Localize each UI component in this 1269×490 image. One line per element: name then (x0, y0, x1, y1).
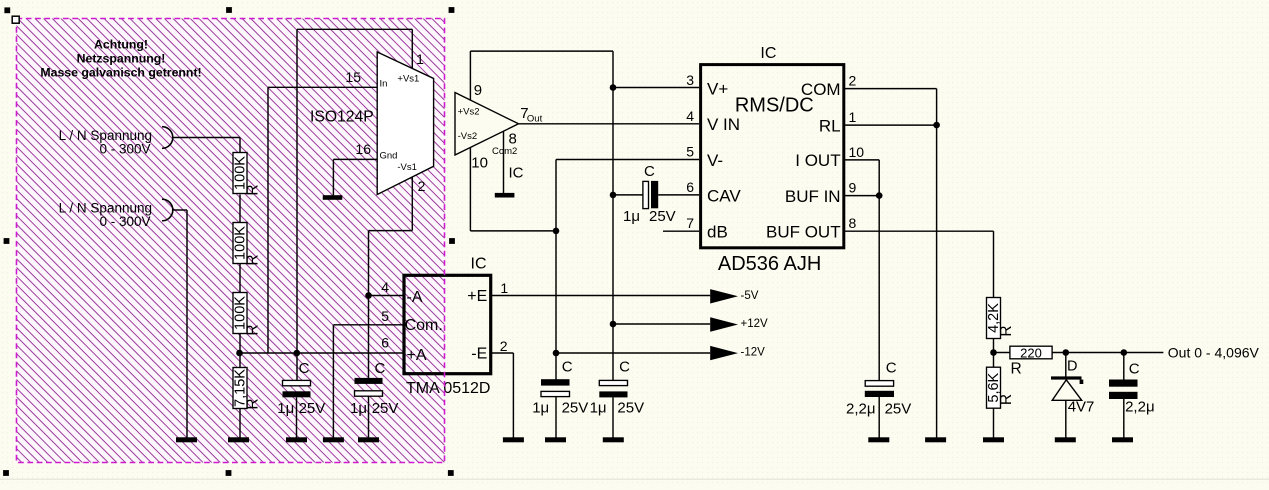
svg-text:dB: dB (707, 223, 728, 242)
svg-text:Com.: Com. (405, 317, 443, 334)
svg-text:1: 1 (416, 51, 424, 67)
svg-text:Com2: Com2 (492, 146, 517, 157)
svg-text:220: 220 (1020, 345, 1042, 360)
svg-text:-Vs2: -Vs2 (458, 131, 478, 142)
svg-text:25V: 25V (372, 400, 399, 417)
svg-text:V-: V- (707, 151, 723, 170)
svg-text:9: 9 (849, 180, 857, 196)
svg-text:0 - 300V: 0 - 300V (99, 141, 150, 156)
svg-text:C: C (619, 358, 630, 375)
svg-text:4: 4 (686, 108, 694, 124)
svg-text:4: 4 (381, 279, 389, 295)
svg-text:2: 2 (849, 73, 857, 89)
svg-text:2: 2 (500, 338, 508, 354)
svg-text:Achtung!: Achtung! (94, 38, 148, 52)
svg-text:R: R (245, 254, 262, 265)
svg-text:C: C (562, 358, 573, 375)
svg-text:Netzspannung!: Netzspannung! (77, 52, 166, 66)
svg-text:-A: -A (407, 289, 423, 306)
svg-text:9: 9 (474, 82, 482, 99)
svg-text:7: 7 (686, 215, 694, 231)
svg-text:RL: RL (819, 116, 841, 135)
svg-text:4V7: 4V7 (1068, 399, 1095, 416)
svg-text:C: C (1129, 360, 1140, 377)
svg-text:R: R (245, 324, 262, 335)
svg-text:C: C (375, 360, 386, 377)
svg-text:2,2μ: 2,2μ (846, 401, 876, 418)
svg-text:1μ: 1μ (623, 208, 640, 225)
svg-text:25V: 25V (562, 400, 589, 417)
svg-text:C: C (644, 163, 655, 180)
svg-text:+Vs1: +Vs1 (397, 74, 419, 85)
svg-text:10: 10 (849, 144, 865, 160)
svg-text:Masse galvanisch getrennt!: Masse galvanisch getrennt! (40, 66, 201, 80)
svg-text:R: R (245, 398, 262, 409)
svg-text:C: C (299, 360, 310, 377)
svg-text:25V: 25V (299, 400, 326, 417)
svg-text:6: 6 (381, 335, 389, 351)
svg-text:1μ: 1μ (277, 400, 294, 417)
svg-text:1: 1 (500, 280, 508, 296)
svg-text:AD536 AJH: AD536 AJH (718, 253, 821, 275)
svg-text:BUF OUT: BUF OUT (766, 223, 841, 242)
svg-text:V IN: V IN (707, 115, 740, 134)
svg-text:-12V: -12V (741, 347, 766, 359)
svg-text:15: 15 (345, 69, 361, 85)
svg-text:25V: 25V (885, 401, 912, 418)
svg-text:10: 10 (471, 155, 488, 172)
svg-text:-5V: -5V (741, 290, 759, 302)
svg-text:Out 0 - 4,096V: Out 0 - 4,096V (1168, 345, 1260, 361)
svg-text:CAV: CAV (707, 187, 741, 206)
svg-text:D: D (1067, 359, 1077, 375)
svg-text:1: 1 (849, 109, 857, 125)
svg-text:5: 5 (686, 144, 694, 160)
svg-text:I OUT: I OUT (795, 151, 840, 170)
svg-text:R: R (245, 184, 262, 195)
svg-text:5: 5 (381, 308, 389, 324)
svg-text:-Vs1: -Vs1 (397, 162, 417, 173)
svg-text:ISO124P: ISO124P (310, 109, 374, 126)
svg-text:TMA 0512D: TMA 0512D (406, 380, 490, 397)
svg-text:COM: COM (801, 80, 841, 99)
svg-text:+A: +A (407, 347, 427, 364)
svg-text:2,2μ: 2,2μ (1125, 399, 1155, 416)
svg-text:0 - 300V: 0 - 300V (99, 214, 150, 229)
svg-text:Gnd: Gnd (380, 151, 398, 162)
svg-text:6: 6 (686, 179, 694, 195)
svg-text:2: 2 (418, 178, 426, 194)
svg-text:8: 8 (849, 215, 857, 231)
svg-text:1μ: 1μ (590, 400, 607, 417)
svg-text:-E: -E (471, 346, 487, 363)
svg-text:+E: +E (467, 288, 487, 305)
svg-text:R: R (998, 325, 1015, 336)
svg-text:+Vs2: +Vs2 (458, 106, 480, 117)
svg-text:In: In (380, 79, 388, 90)
svg-text:25V: 25V (617, 400, 644, 417)
svg-text:R: R (998, 394, 1015, 405)
svg-text:R: R (1011, 361, 1022, 378)
svg-text:16: 16 (355, 141, 371, 157)
svg-text:V+: V+ (707, 79, 728, 98)
svg-text:IC: IC (760, 45, 776, 62)
svg-text:1μ: 1μ (350, 400, 367, 417)
svg-text:Out: Out (527, 114, 543, 125)
svg-text:25V: 25V (649, 208, 676, 225)
svg-text:IC: IC (471, 256, 487, 273)
svg-text:BUF IN: BUF IN (785, 187, 841, 206)
svg-text:IC: IC (509, 164, 524, 181)
svg-text:1μ: 1μ (532, 400, 549, 417)
svg-text:3: 3 (686, 72, 694, 88)
svg-text:C: C (886, 360, 897, 377)
svg-text:+12V: +12V (741, 318, 769, 330)
